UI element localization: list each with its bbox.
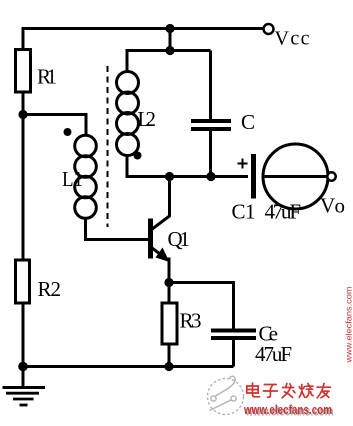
svg-text:www.elecfans.com: www.elecfans.com <box>344 287 353 364</box>
svg-text:Vo: Vo <box>320 194 345 218</box>
svg-text:47uF: 47uF <box>255 342 292 366</box>
svg-text:R2: R2 <box>38 277 62 301</box>
svg-text:R1: R1 <box>37 65 57 89</box>
svg-text:Q1: Q1 <box>168 227 191 251</box>
svg-text:R3: R3 <box>180 309 202 333</box>
svg-text:L2: L2 <box>137 107 156 131</box>
svg-text:www.elecfans.com: www.elecfans.com <box>243 403 332 417</box>
svg-text:47uF: 47uF <box>265 200 302 224</box>
svg-text:C1: C1 <box>232 200 256 224</box>
svg-text:C: C <box>241 110 255 134</box>
svg-text:Vcc: Vcc <box>275 28 310 50</box>
